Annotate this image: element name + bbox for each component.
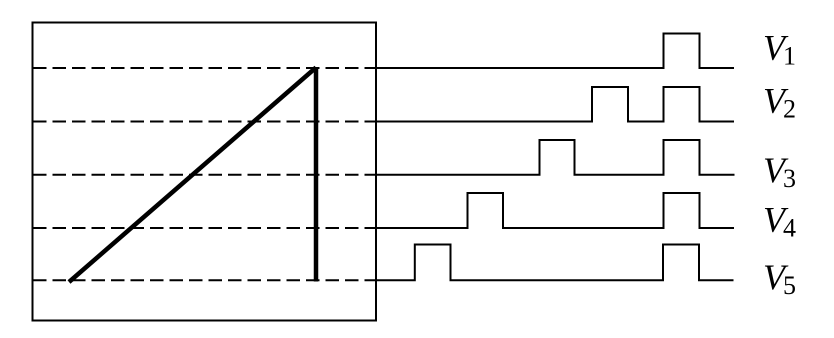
threshold level V4 (dashed) xyxy=(33,227,375,229)
svg-text:3: 3 xyxy=(783,164,796,193)
svg-text:2: 2 xyxy=(783,94,796,123)
comparator output trace V1 xyxy=(375,34,734,69)
svg-text:4: 4 xyxy=(783,214,796,243)
svg-text:5: 5 xyxy=(783,271,796,300)
threshold level V5 (dashed) xyxy=(33,279,375,281)
svg-text:1: 1 xyxy=(783,41,796,70)
comparator output trace V4 xyxy=(375,193,734,228)
ramp waveform (rising edge) xyxy=(69,68,316,283)
comparator output trace V5 xyxy=(375,245,734,281)
ramp generator window box xyxy=(33,23,377,321)
comparator output trace V3 xyxy=(375,140,735,175)
comparator output trace V2 xyxy=(375,87,734,122)
ramp waveform (falling vertical edge) xyxy=(314,67,319,282)
threshold level V1 (dashed) xyxy=(33,67,375,69)
threshold level V3 (dashed) xyxy=(33,174,375,176)
threshold level V2 (dashed) xyxy=(33,121,375,123)
